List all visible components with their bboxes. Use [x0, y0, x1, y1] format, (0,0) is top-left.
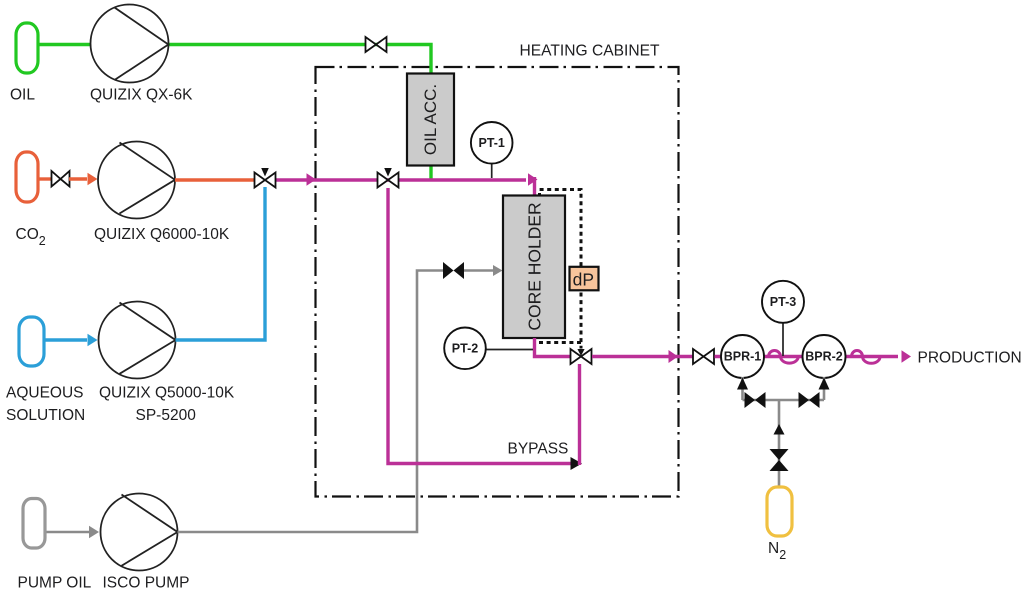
- arrow magenta bypass: [571, 457, 583, 470]
- svg-text:PUMP OIL: PUMP OIL: [18, 575, 92, 592]
- heating cabinet enclosure: [316, 67, 679, 497]
- svg-text:PRODUCTION: PRODUCTION: [918, 350, 1022, 367]
- BPR-1 regulator: [721, 335, 764, 378]
- valve V6 solid right: [799, 392, 820, 408]
- wire green oil accumulator to main line: [429, 165, 432, 180]
- aqueous cylinder: [19, 317, 44, 366]
- svg-text:PT-3: PT-3: [770, 295, 796, 309]
- coil loop between BPR-1 and BPR-2: [769, 351, 799, 364]
- N2 cylinder: [767, 487, 792, 536]
- valve V1 3-way co2/aqueous junction: [255, 168, 276, 188]
- wire magenta to BPR section: [592, 355, 694, 358]
- wire green pump outlet to oil accumulator: [168, 45, 431, 75]
- arrow black up into BPR-2: [819, 378, 830, 390]
- wire blue aqueous cylinder to pump: [45, 338, 87, 341]
- wire gray BPR-2 drain: [823, 377, 826, 400]
- wire magenta main line to core holder: [276, 178, 526, 181]
- PT-1 stem: [491, 164, 493, 179]
- svg-text:PT-1: PT-1: [478, 136, 504, 150]
- arrow black up into BPR-1: [737, 378, 748, 390]
- wire orange valve to pump: [69, 177, 87, 180]
- svg-text:ISCO PUMP: ISCO PUMP: [103, 575, 190, 592]
- wire magenta bypass down/right/up: [388, 188, 571, 464]
- svg-text:BYPASS: BYPASS: [508, 441, 569, 458]
- wire orange pump to 3way valve: [175, 178, 254, 181]
- arrow magenta at core holder corner: [528, 173, 538, 186]
- coil loop after BPR-2: [852, 351, 881, 364]
- wire magenta bypass riser to valve V3: [578, 364, 581, 465]
- svg-text:N2: N2: [768, 540, 786, 562]
- svg-text:dP: dP: [573, 270, 594, 290]
- wire gray pump oil cylinder to pump: [45, 531, 89, 534]
- svg-text:SP-5200: SP-5200: [136, 407, 197, 424]
- arrow magenta production: [902, 350, 912, 363]
- svg-text:BPR-1: BPR-1: [724, 350, 762, 364]
- svg-text:PT-2: PT-2: [452, 342, 478, 356]
- svg-text:QUIZIX Q5000-10K: QUIZIX Q5000-10K: [99, 385, 235, 402]
- wire magenta core outlet down: [535, 338, 571, 357]
- svg-text:QUIZIX QX-6K: QUIZIX QX-6K: [90, 87, 193, 104]
- wire magenta corner down into core holder: [533, 177, 536, 196]
- svg-text:QUIZIX Q6000-10K: QUIZIX Q6000-10K: [94, 226, 230, 243]
- PT-2 stem: [485, 349, 533, 351]
- pump oil cylinder: [23, 499, 45, 549]
- wire magenta valve V4 to production arrow: [715, 355, 899, 358]
- pump QUIZIX QX-6K: [91, 5, 169, 83]
- oil accumulator vessel: [407, 74, 454, 166]
- svg-text:OIL ACC.: OIL ACC.: [421, 84, 440, 155]
- arrow black up on N2 riser: [774, 424, 785, 435]
- arrow magenta before valve V4: [669, 350, 679, 363]
- arrow orange into pump: [88, 173, 98, 186]
- valve V2 3-way bypass takeoff: [378, 168, 399, 188]
- pump QUIZIX Q6000-10K: [98, 142, 175, 219]
- PT-3 stem: [782, 323, 784, 357]
- BPR-2 regulator: [803, 335, 846, 378]
- svg-text:CO2: CO2: [16, 226, 46, 248]
- svg-text:CORE HOLDER: CORE HOLDER: [525, 202, 545, 330]
- PT-3 gauge: [762, 281, 804, 323]
- oil cylinder: [16, 23, 38, 73]
- valve V4: [693, 349, 714, 364]
- svg-text:HEATING CABINET: HEATING CABINET: [520, 43, 661, 60]
- PT-1 gauge: [471, 122, 513, 164]
- core holder vessel: [503, 196, 565, 339]
- arrow magenta at cabinet entry: [307, 173, 317, 186]
- wire gray valve to core holder with arrow: [464, 269, 493, 272]
- arrow blue into pump: [88, 334, 98, 347]
- valve V5 solid left: [745, 392, 766, 408]
- valve V-co2: [52, 171, 70, 187]
- wire gray isco pump to core holder: [178, 271, 444, 533]
- dP dotted sense lines: [534, 190, 582, 349]
- svg-text:BPR-2: BPR-2: [805, 350, 843, 364]
- dP cell: [570, 267, 599, 291]
- co2 cylinder: [16, 152, 38, 202]
- wire green oil line: [38, 43, 91, 46]
- PT-2 gauge: [444, 328, 486, 370]
- svg-text:SOLUTION: SOLUTION: [6, 407, 85, 424]
- valve V3 3-way bypass return: [571, 349, 592, 364]
- valve V7 N2 vertical: [770, 449, 789, 471]
- wire gray manifold: [743, 400, 825, 487]
- svg-text:OIL: OIL: [10, 87, 35, 104]
- valve V-gray solid on overburden line: [443, 262, 464, 279]
- svg-text:AQUEOUS: AQUEOUS: [6, 385, 84, 402]
- pump QUIZIX Q5000-10K: [99, 302, 176, 379]
- arrow gray into core holder: [493, 265, 503, 276]
- valve V-green on oil line: [366, 37, 387, 52]
- wire orange co2 cylinder to valve: [37, 177, 51, 180]
- pump ISCO PUMP: [101, 494, 178, 571]
- wire gray BPR-1 drain: [741, 377, 744, 400]
- arrow gray into pump: [89, 526, 99, 539]
- wire blue pump to 3way valve junction: [176, 187, 266, 340]
